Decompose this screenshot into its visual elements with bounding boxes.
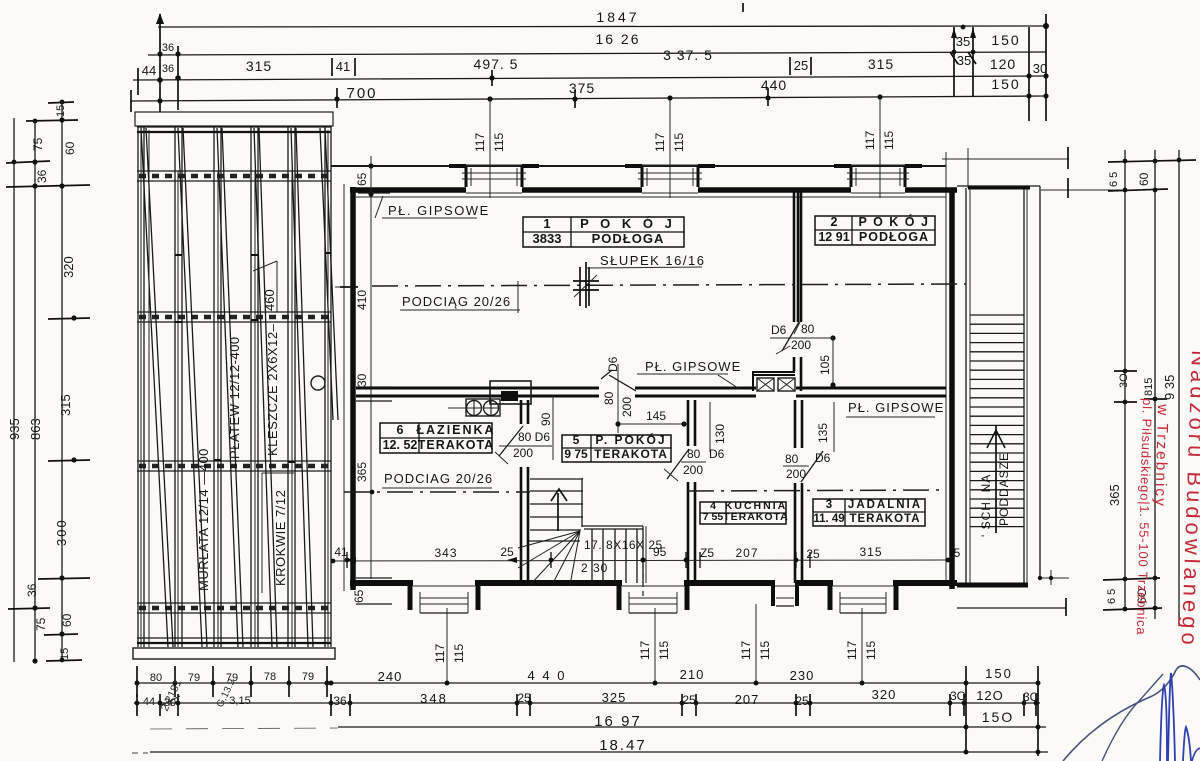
- top band line a: [137, 126, 331, 128]
- chain line x1155: [1154, 150, 1156, 619]
- leader: [375, 196, 383, 218]
- tick x138: [137, 68, 139, 95]
- row3 faint left dashes: [150, 728, 338, 729]
- svg-text:210: 210: [680, 667, 705, 682]
- svg-text:25: 25: [806, 547, 820, 561]
- riser x832 for 105: [832, 338, 834, 385]
- svg-text:PŁ. GIPSOWE: PŁ. GIPSOWE: [645, 359, 741, 374]
- svg-text:TERAKOTA: TERAKOTA: [723, 511, 789, 523]
- right block vertical x1038: [1037, 666, 1039, 756]
- R1 dots: [135, 681, 1041, 686]
- arrowheads 35 pair: [951, 28, 957, 38]
- signature tail: [1192, 748, 1200, 761]
- svg-text:TERAKOTA: TERAKOTA: [594, 447, 668, 461]
- svg-text:135: 135: [816, 423, 830, 443]
- window riser x490: [489, 99, 491, 198]
- column slupek symbol: [573, 262, 599, 308]
- rafter diagonal 2: [178, 128, 202, 647]
- column tread 8: [970, 378, 1024, 380]
- winder fan lines: [518, 531, 580, 585]
- column tread 19: [970, 480, 1024, 482]
- door X box left: [757, 378, 774, 391]
- svg-text:w Trzebnicy: w Trzebnicy: [1151, 403, 1171, 508]
- KROKWIE bracket top: [262, 472, 294, 474]
- tread u4: [530, 529, 581, 531]
- column tread 4: [970, 342, 1024, 344]
- svg-text:7 55: 7 55: [703, 511, 724, 523]
- svg-text:117: 117: [473, 133, 487, 152]
- stair arrow shaft: [557, 493, 559, 531]
- svg-text:200: 200: [683, 463, 703, 477]
- window riser x880: [879, 97, 881, 198]
- right block vertical x973: [972, 27, 974, 97]
- extension vertical at x160: [159, 14, 161, 112]
- connector line block to plan top: [331, 165, 946, 167]
- underline: [382, 217, 477, 219]
- svg-text:115: 115: [672, 133, 686, 152]
- svg-text:80: 80: [150, 672, 162, 684]
- column tread 15: [970, 443, 1024, 445]
- svg-text:200: 200: [786, 467, 806, 481]
- svg-text:PODDASZE: PODDASZE: [997, 452, 1011, 526]
- svg-text:80: 80: [687, 447, 701, 461]
- svg-text:25: 25: [794, 58, 808, 73]
- svg-text:440: 440: [761, 77, 787, 93]
- svg-text:348: 348: [420, 691, 448, 706]
- beam 5: [287, 126, 289, 647]
- column tread 2: [970, 323, 1024, 325]
- horizontal platew band 2: [137, 311, 331, 313]
- fan tread: [529, 540, 580, 542]
- tick y161: [1108, 160, 1196, 162]
- dots right block: [1026, 73, 1031, 78]
- signature spike 1: [1160, 685, 1167, 761]
- KROKWIE bracket vertical: [261, 473, 263, 593]
- rafter diagonal 5: [291, 128, 308, 647]
- svg-text:130: 130: [713, 424, 727, 444]
- tread l5: [636, 529, 638, 583]
- column right wall b: [1026, 188, 1028, 583]
- dim dots y570: [345, 557, 951, 562]
- signature spike 2: [1168, 673, 1175, 761]
- svg-text:315: 315: [246, 58, 272, 74]
- connector tick right mid: [335, 286, 344, 288]
- rafter diagonal 1: [141, 128, 168, 647]
- svg-text:16 97: 16 97: [594, 713, 642, 730]
- tick on line3 under 497.5: [491, 70, 493, 86]
- svg-text:3: 3: [826, 499, 832, 511]
- top wall inner thin line: [356, 196, 946, 198]
- mid tick y371: [1114, 370, 1137, 372]
- R2 tick x530: [529, 694, 531, 716]
- column tread 9: [970, 388, 1024, 390]
- R2 tick x160: [159, 694, 161, 716]
- door X box right: [778, 378, 795, 391]
- svg-text:145: 145: [646, 409, 666, 423]
- bottom riser window2 x655: [654, 608, 656, 683]
- svg-text:25: 25: [517, 691, 531, 705]
- bottom row line 1: [137, 682, 1040, 684]
- svg-text:300: 300: [54, 518, 69, 546]
- R2 tick x517: [516, 694, 518, 716]
- svg-text:410: 410: [355, 290, 369, 310]
- column tread 5: [970, 351, 1024, 353]
- svg-text:117: 117: [653, 133, 667, 152]
- chain line A x15 (935): [13, 118, 15, 662]
- R1 tick x137: [136, 666, 138, 697]
- stair right wall: [642, 526, 644, 583]
- door2 underline: [770, 337, 833, 339]
- svg-text:ŁAZIENKA: ŁAZIENKA: [416, 423, 495, 437]
- svg-text:497. 5: 497. 5: [474, 56, 519, 72]
- svg-text:3,15: 3,15: [229, 695, 250, 707]
- scattered joint ticks on beams: [175, 253, 331, 462]
- top band line b: [137, 131, 331, 133]
- R2 tick x137: [136, 694, 138, 716]
- svg-text:5: 5: [573, 433, 580, 447]
- left wall thick: [350, 187, 356, 590]
- svg-text:117: 117: [638, 641, 652, 660]
- bottom row line 3: [338, 726, 1046, 728]
- svg-text:9 75: 9 75: [564, 447, 588, 461]
- R2 tick x1024: [1023, 694, 1025, 716]
- right edge beam: [324, 126, 326, 647]
- column tread 3: [970, 332, 1024, 334]
- svg-text:105: 105: [818, 355, 832, 375]
- top cap rect: [135, 112, 333, 126]
- svg-text:25: 25: [682, 693, 696, 707]
- tick y190: [1108, 189, 1168, 191]
- svg-text:117: 117: [433, 644, 447, 663]
- svg-text:207: 207: [735, 546, 758, 560]
- svg-text:95: 95: [653, 545, 667, 559]
- svg-text:6 5: 6 5: [1106, 589, 1118, 604]
- chain dots: [60, 100, 65, 105]
- axis dash-dot lower left: [344, 491, 530, 493]
- wall bath-stair: [521, 400, 528, 583]
- rafter diagonal 6: [320, 128, 333, 420]
- tread l2: [602, 529, 604, 583]
- tread u3: [530, 516, 583, 518]
- tread u1: [530, 490, 583, 492]
- svg-text:PŁ. GIPSOWE: PŁ. GIPSOWE: [848, 400, 944, 415]
- bottom row line 4: [150, 751, 1048, 753]
- svg-text:343: 343: [434, 546, 457, 560]
- mid tick y399b: [1144, 398, 1167, 400]
- svg-text:460: 460: [262, 289, 277, 311]
- tick on line4 under 440: [767, 88, 769, 106]
- corner dots: [1038, 576, 1042, 580]
- riser x710: [709, 402, 711, 452]
- svg-text:5: 5: [954, 546, 961, 560]
- chimney black block: [501, 391, 518, 401]
- tick x131 left end: [130, 90, 132, 112]
- column left wall b: [969, 188, 971, 583]
- R2 tick x950: [949, 694, 951, 716]
- R2 tick x810: [809, 694, 811, 716]
- right block vertical x966: [965, 666, 967, 753]
- right block dots r3: [964, 725, 1041, 755]
- svg-text:35: 35: [957, 53, 971, 68]
- axis dash-dot lower right: [688, 490, 946, 491]
- svg-text:230: 230: [790, 668, 815, 683]
- svg-text:D6: D6: [771, 323, 787, 337]
- underline: [783, 465, 809, 467]
- door leaf bathroom: [499, 426, 523, 456]
- signature arc 1: [1063, 666, 1200, 761]
- svg-text:JADALNIA: JADALNIA: [848, 499, 922, 511]
- svg-text:115: 115: [882, 131, 896, 150]
- svg-text:375: 375: [569, 80, 595, 96]
- ground line right bottom: [957, 607, 1066, 609]
- underline: [637, 373, 728, 375]
- upper flight boundary: [530, 478, 583, 480]
- svg-text:44: 44: [143, 696, 155, 708]
- right wall thick: [949, 188, 955, 589]
- svg-text:KLESZCZE 2X6X12–: KLESZCZE 2X6X12–: [265, 323, 280, 456]
- tick y459: [48, 460, 90, 461]
- svg-text:41: 41: [336, 59, 350, 74]
- svg-text:365: 365: [355, 462, 369, 482]
- tread u2: [530, 503, 583, 505]
- horizontal platew band 3: [137, 460, 331, 462]
- svg-text:' SCH. NA: ' SCH. NA: [979, 474, 993, 537]
- svg-text:36: 36: [35, 169, 49, 183]
- svg-text:115: 115: [452, 644, 466, 663]
- column tread 1: [970, 314, 1024, 316]
- room table 2 POKOJ: [815, 214, 935, 245]
- svg-text:80: 80: [801, 322, 815, 336]
- svg-text:60: 60: [63, 141, 77, 155]
- tick on line1 small: [742, 3, 744, 12]
- svg-text:12O: 12O: [976, 688, 1004, 703]
- svg-text:36: 36: [333, 694, 347, 708]
- column tread 24: [970, 526, 1024, 528]
- signature arc 2: [1102, 674, 1163, 761]
- column tread 23: [970, 516, 1024, 518]
- dim line 1 (overall 1847): [158, 26, 1046, 27]
- svg-text:PŁATEW 12/12-400: PŁATEW 12/12-400: [227, 336, 242, 459]
- svg-text:D6: D6: [709, 447, 725, 461]
- svg-text:12. 52: 12. 52: [383, 438, 418, 452]
- tick y330: [48, 318, 90, 319]
- underline: [382, 487, 492, 489]
- top window 2: [625, 164, 715, 168]
- svg-text:PŁ. GIPSOWE: PŁ. GIPSOWE: [388, 203, 490, 218]
- mid horizontal wall lower line: [356, 395, 946, 398]
- svg-text:36: 36: [25, 583, 39, 597]
- signature spike 3: [1183, 727, 1191, 761]
- door leaf kuchnia: [667, 449, 689, 479]
- R1 tick x175: [174, 666, 176, 697]
- end tick: [1065, 598, 1067, 616]
- svg-text:PODCIĄG 20/26: PODCIĄG 20/26: [402, 294, 511, 309]
- svg-text:200: 200: [620, 397, 634, 417]
- svg-text:75: 75: [34, 617, 48, 631]
- svg-text:78: 78: [264, 671, 276, 683]
- right block vertical x1046: [1045, 14, 1047, 121]
- svg-text:150: 150: [991, 32, 1020, 48]
- svg-text:815: 815: [1143, 378, 1155, 396]
- wall pokoj5-kuchnia: [688, 400, 695, 583]
- beam 4: [250, 126, 252, 647]
- svg-text:3O: 3O: [950, 689, 966, 703]
- R2 tick x350: [349, 694, 351, 716]
- landing line: [582, 525, 643, 527]
- column top edge: [957, 185, 1040, 187]
- room table 1 POKOJ: [523, 216, 684, 247]
- window riser x670: [669, 99, 671, 198]
- svg-text:150: 150: [991, 76, 1020, 92]
- svg-text:115: 115: [492, 133, 506, 152]
- tick y181: [6, 185, 90, 187]
- svg-text:115: 115: [758, 641, 772, 660]
- column stair arrow V: [987, 430, 1005, 448]
- svg-text:P. POKÓJ: P. POKÓJ: [595, 432, 666, 447]
- tick y615: [8, 608, 50, 609]
- svg-text:80 D6: 80 D6: [518, 430, 550, 444]
- svg-text:120: 120: [990, 56, 1016, 72]
- top window 3: [834, 164, 922, 168]
- axis dash-dot upper: [372, 284, 966, 286]
- svg-text:315: 315: [58, 394, 73, 416]
- end tick: [517, 281, 519, 313]
- washbasin frame: [466, 399, 500, 416]
- small circle symbol: [311, 376, 325, 390]
- svg-text:TERAKOTA: TERAKOTA: [418, 438, 495, 452]
- svg-text:12 91: 12 91: [818, 230, 849, 244]
- svg-text:15: 15: [55, 105, 67, 117]
- stair column bottom wall: [957, 583, 1028, 588]
- left edge beam: [137, 126, 139, 647]
- niche lines above X boxes: [752, 372, 795, 391]
- svg-text:207: 207: [735, 692, 760, 707]
- svg-text:200: 200: [791, 338, 811, 352]
- svg-text:117: 117: [863, 131, 877, 150]
- door leaf jadalnia: [801, 451, 823, 482]
- column right wall a: [1023, 188, 1025, 583]
- top window 1: [449, 164, 539, 168]
- underline: [846, 416, 935, 418]
- svg-text:36: 36: [162, 63, 174, 75]
- R2 tick x964: [963, 694, 965, 716]
- left wall outer thin: [343, 184, 345, 591]
- chain line x1179: [1178, 150, 1180, 626]
- svg-text:240: 240: [378, 669, 403, 684]
- svg-text:863: 863: [28, 418, 43, 440]
- dim line 4: [130, 96, 1047, 101]
- R2 tick x796: [795, 694, 797, 716]
- svg-text:115: 115: [864, 641, 878, 660]
- column stair arrow shaft: [995, 425, 997, 533]
- svg-text:KROKWIE 7/12: KROKWIE 7/12: [273, 490, 288, 586]
- svg-text:4 4 0: 4 4 0: [528, 668, 567, 683]
- dim ticks y570: [347, 552, 810, 568]
- svg-text:700: 700: [346, 85, 377, 102]
- top ext tick: [1067, 147, 1069, 169]
- svg-text:65: 65: [352, 589, 366, 603]
- 90 riser line: [552, 396, 554, 460]
- room table 5 P.POKOJ: [562, 432, 671, 462]
- svg-text:P O K Ó J: P O K Ó J: [580, 216, 676, 231]
- dim 145 line: [619, 423, 685, 425]
- room table 4 KUCHNIA: [700, 500, 789, 524]
- bottom wall segments: [350, 580, 957, 586]
- svg-text:6: 6: [397, 423, 404, 437]
- corner line y578: [1038, 577, 1069, 579]
- svg-text:17. 8X16X 25: 17. 8X16X 25: [584, 538, 663, 552]
- room table 6 LAZIENKA: [380, 423, 496, 453]
- svg-text:SŁUPEK 16/16: SŁUPEK 16/16: [600, 253, 705, 268]
- right block vertical x1029: [1028, 27, 1030, 121]
- svg-text:16 26: 16 26: [595, 31, 640, 47]
- mid tick y402: [1114, 401, 1137, 403]
- svg-text:3O: 3O: [1023, 690, 1039, 704]
- svg-text:315: 315: [868, 56, 894, 72]
- svg-text:117: 117: [739, 641, 753, 660]
- R1 tick x289: [288, 666, 290, 697]
- svg-text:35: 35: [956, 34, 970, 49]
- dim line 2 (1626): [148, 52, 1046, 55]
- arrowhead top x160: [156, 13, 164, 24]
- riser x834: [833, 402, 835, 452]
- svg-text:PODCIAG 20/26: PODCIAG 20/26: [384, 471, 493, 486]
- tick y668: [46, 660, 82, 661]
- rafter diagonal 4: [254, 128, 272, 647]
- row4 left dash: [132, 752, 148, 754]
- svg-text:9 35: 9 35: [1162, 375, 1177, 400]
- door bath underline: [499, 445, 552, 447]
- door leaf room2: [782, 322, 799, 351]
- svg-text:65: 65: [355, 172, 369, 186]
- 460 leader slant: [253, 261, 277, 271]
- corner tick: [1050, 570, 1052, 585]
- svg-text:D6: D6: [606, 356, 620, 372]
- R1 tick x327: [326, 666, 328, 697]
- svg-text:TERAKOTA: TERAKOTA: [849, 513, 920, 525]
- dim line y570 across plan: [331, 560, 948, 561]
- bottom riser window4 x862: [861, 608, 863, 683]
- svg-text:MURŁATA 12/14 —400: MURŁATA 12/14 —400: [196, 448, 211, 591]
- svg-text:365: 365: [1107, 484, 1122, 506]
- tick y124: [26, 120, 78, 121]
- chain line B x41 (863): [34, 120, 36, 662]
- room table 3 JADALNIA: [813, 499, 925, 526]
- svg-text:1847: 1847: [596, 9, 639, 25]
- bottom rail line 1: [137, 637, 331, 639]
- column tread 20: [970, 489, 1024, 491]
- bottom riser window1 x447: [446, 608, 448, 683]
- dim line 3: [133, 76, 1046, 80]
- svg-text:D6: D6: [815, 451, 831, 465]
- right wall inner thin: [945, 192, 947, 585]
- ticks on left wall chain: [356, 166, 392, 604]
- door leaf room1: [609, 375, 636, 391]
- svg-text:320: 320: [872, 687, 897, 702]
- column tread 16: [970, 452, 1024, 454]
- R1 tick x213: [212, 666, 214, 697]
- column tread 13: [970, 424, 1024, 426]
- svg-text:PODŁOGA: PODŁOGA: [859, 230, 929, 244]
- svg-text:3833: 3833: [533, 231, 562, 246]
- washbasin circle 1: [467, 401, 482, 416]
- bottom cap rect: [133, 648, 335, 659]
- tick y650: [44, 634, 78, 635]
- upper flight right edge: [581, 478, 583, 527]
- R2 tick x331: [330, 694, 332, 716]
- column left wall a: [965, 188, 967, 583]
- tread l4: [625, 529, 627, 583]
